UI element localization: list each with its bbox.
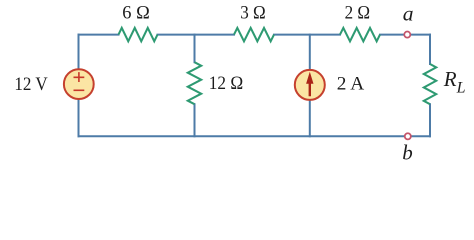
svg-text:2 A: 2 A: [337, 74, 365, 95]
svg-text:6 Ω: 6 Ω: [122, 3, 150, 24]
svg-text:12 V: 12 V: [14, 74, 48, 95]
svg-text:3 Ω: 3 Ω: [240, 3, 266, 24]
svg-text:L: L: [456, 80, 466, 97]
svg-text:12 Ω: 12 Ω: [209, 73, 243, 94]
svg-text:R: R: [443, 67, 457, 91]
svg-text:a: a: [403, 1, 414, 25]
svg-text:b: b: [402, 140, 413, 164]
svg-text:2 Ω: 2 Ω: [345, 3, 371, 24]
